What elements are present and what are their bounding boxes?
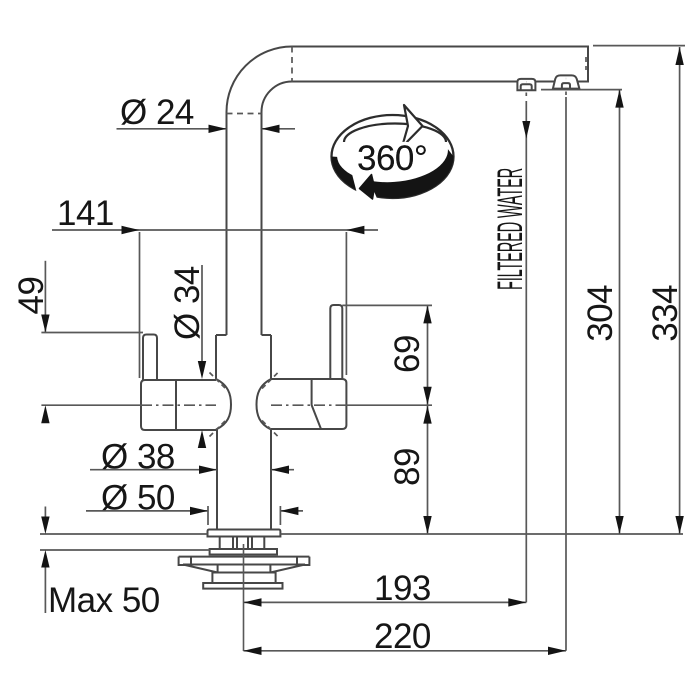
filtered water flow line — [525, 101, 527, 602]
countertop top reference line — [40, 533, 683, 535]
base flange Ø50 — [208, 530, 281, 537]
mounting stack — [220, 537, 265, 550]
faucet vertical centerline — [243, 544, 245, 651]
svg-text:89: 89 — [388, 448, 427, 486]
spout end hidden outlet dashed line — [585, 57, 587, 70]
dimension 304 — [581, 90, 624, 534]
svg-text:304: 304 — [581, 285, 620, 342]
dimension 89 — [388, 406, 432, 534]
right valve body — [271, 379, 346, 429]
clamp wedge right — [270, 565, 305, 573]
aerator vertical reference line — [565, 97, 567, 651]
waist transition dashed diagonals — [210, 373, 279, 437]
dimension 334 — [593, 46, 685, 534]
body waist curve right — [257, 379, 272, 430]
svg-text:Max 50: Max 50 — [48, 581, 160, 620]
dimension Ø24 — [117, 93, 296, 133]
dimension 49 — [12, 261, 143, 424]
dimension 141 — [52, 194, 378, 378]
svg-text:220: 220 — [374, 617, 431, 656]
faucet spout and riser pipe outline — [227, 47, 589, 336]
360 degree rotation symbol — [332, 105, 454, 205]
thin flange — [210, 549, 277, 555]
lock nut — [212, 573, 275, 584]
left valve body — [141, 380, 216, 430]
svg-text:69: 69 — [388, 335, 427, 373]
dimension 220 — [244, 617, 567, 656]
svg-text:141: 141 — [57, 194, 114, 233]
svg-text:193: 193 — [374, 569, 431, 608]
body Ø34 section sides — [216, 335, 271, 379]
bend tangent dashed line horizontal — [227, 113, 262, 115]
svg-text:Ø 34: Ø 34 — [168, 266, 207, 340]
valve axis centerline — [41, 404, 432, 406]
right lever handle — [330, 305, 342, 379]
clamp wedge left — [183, 565, 218, 573]
left valve divider — [175, 380, 177, 430]
dimension 69 — [342, 305, 432, 534]
svg-text:Ø 38: Ø 38 — [101, 438, 175, 477]
svg-text:Ø 50: Ø 50 — [101, 479, 175, 518]
dimension 193 — [244, 569, 527, 608]
dimension Ø38 — [90, 438, 294, 477]
countertop bottom reference line — [40, 549, 210, 551]
lower tube Ø38 — [217, 430, 271, 530]
deck plate — [179, 557, 310, 565]
body waist curve left — [216, 379, 231, 430]
svg-text:49: 49 — [12, 277, 51, 315]
filtered water outlet component — [517, 79, 535, 96]
left lever handle — [143, 335, 157, 381]
svg-text:360°: 360° — [357, 139, 427, 178]
dimension Max 50 — [41, 507, 160, 621]
svg-text:Ø 24: Ø 24 — [120, 93, 194, 132]
dimension Ø50 — [86, 479, 303, 526]
304 extension line at aerator base — [541, 89, 622, 91]
dimension Ø34 leader — [168, 265, 207, 448]
svg-text:FILTERED WATER: FILTERED WATER — [491, 168, 530, 290]
bottom flange — [203, 583, 282, 589]
body Ø34 section shoulders — [216, 334, 271, 336]
right valve divider with chamfer — [312, 379, 321, 429]
flow direction arrow — [522, 121, 530, 139]
svg-text:334: 334 — [646, 285, 685, 342]
bend tangent dashed line vertical — [291, 47, 293, 82]
main aerator component — [553, 75, 580, 95]
